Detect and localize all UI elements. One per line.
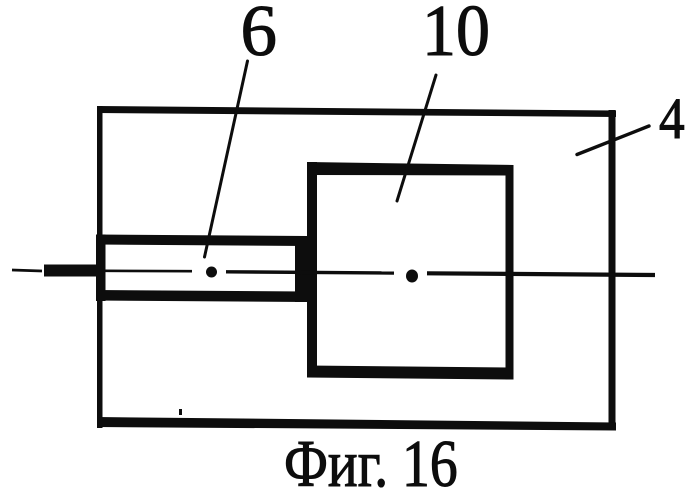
axis dot left — [206, 267, 217, 278]
leader line for 10 — [397, 75, 436, 201]
housing outline 4 : bottom side — [97, 417, 616, 431]
sleeve 6 : bottom side — [96, 290, 307, 302]
block 10 : left side — [307, 162, 317, 378]
axis dot right — [406, 270, 418, 283]
axis segment — [104, 269, 192, 272]
axis dash left — [12, 270, 42, 271]
housing outline 4 : right side — [609, 110, 616, 430]
caption Fig 16 — [284, 431, 458, 491]
sleeve 6 : top side — [96, 235, 307, 247]
shaft stub — [44, 265, 97, 277]
leader line for 6 — [205, 61, 248, 257]
axis segment — [226, 272, 394, 273]
block 10 : top side — [307, 162, 514, 176]
sleeve 6 : left side — [96, 235, 106, 302]
axis segment right — [427, 273, 655, 275]
speck — [179, 409, 182, 415]
leader line for 4 — [577, 126, 649, 155]
axis centerline — [12, 265, 655, 283]
label 6 — [241, 0, 278, 67]
label 10 — [422, 0, 490, 67]
sleeve 6 : right side — [295, 236, 307, 302]
block 10 : right side — [506, 165, 514, 380]
block 10 : bottom side — [307, 366, 514, 380]
housing outline 4 : left side — [97, 106, 103, 428]
housing 4 : top side — [97, 106, 616, 117]
label 4 — [659, 90, 685, 148]
